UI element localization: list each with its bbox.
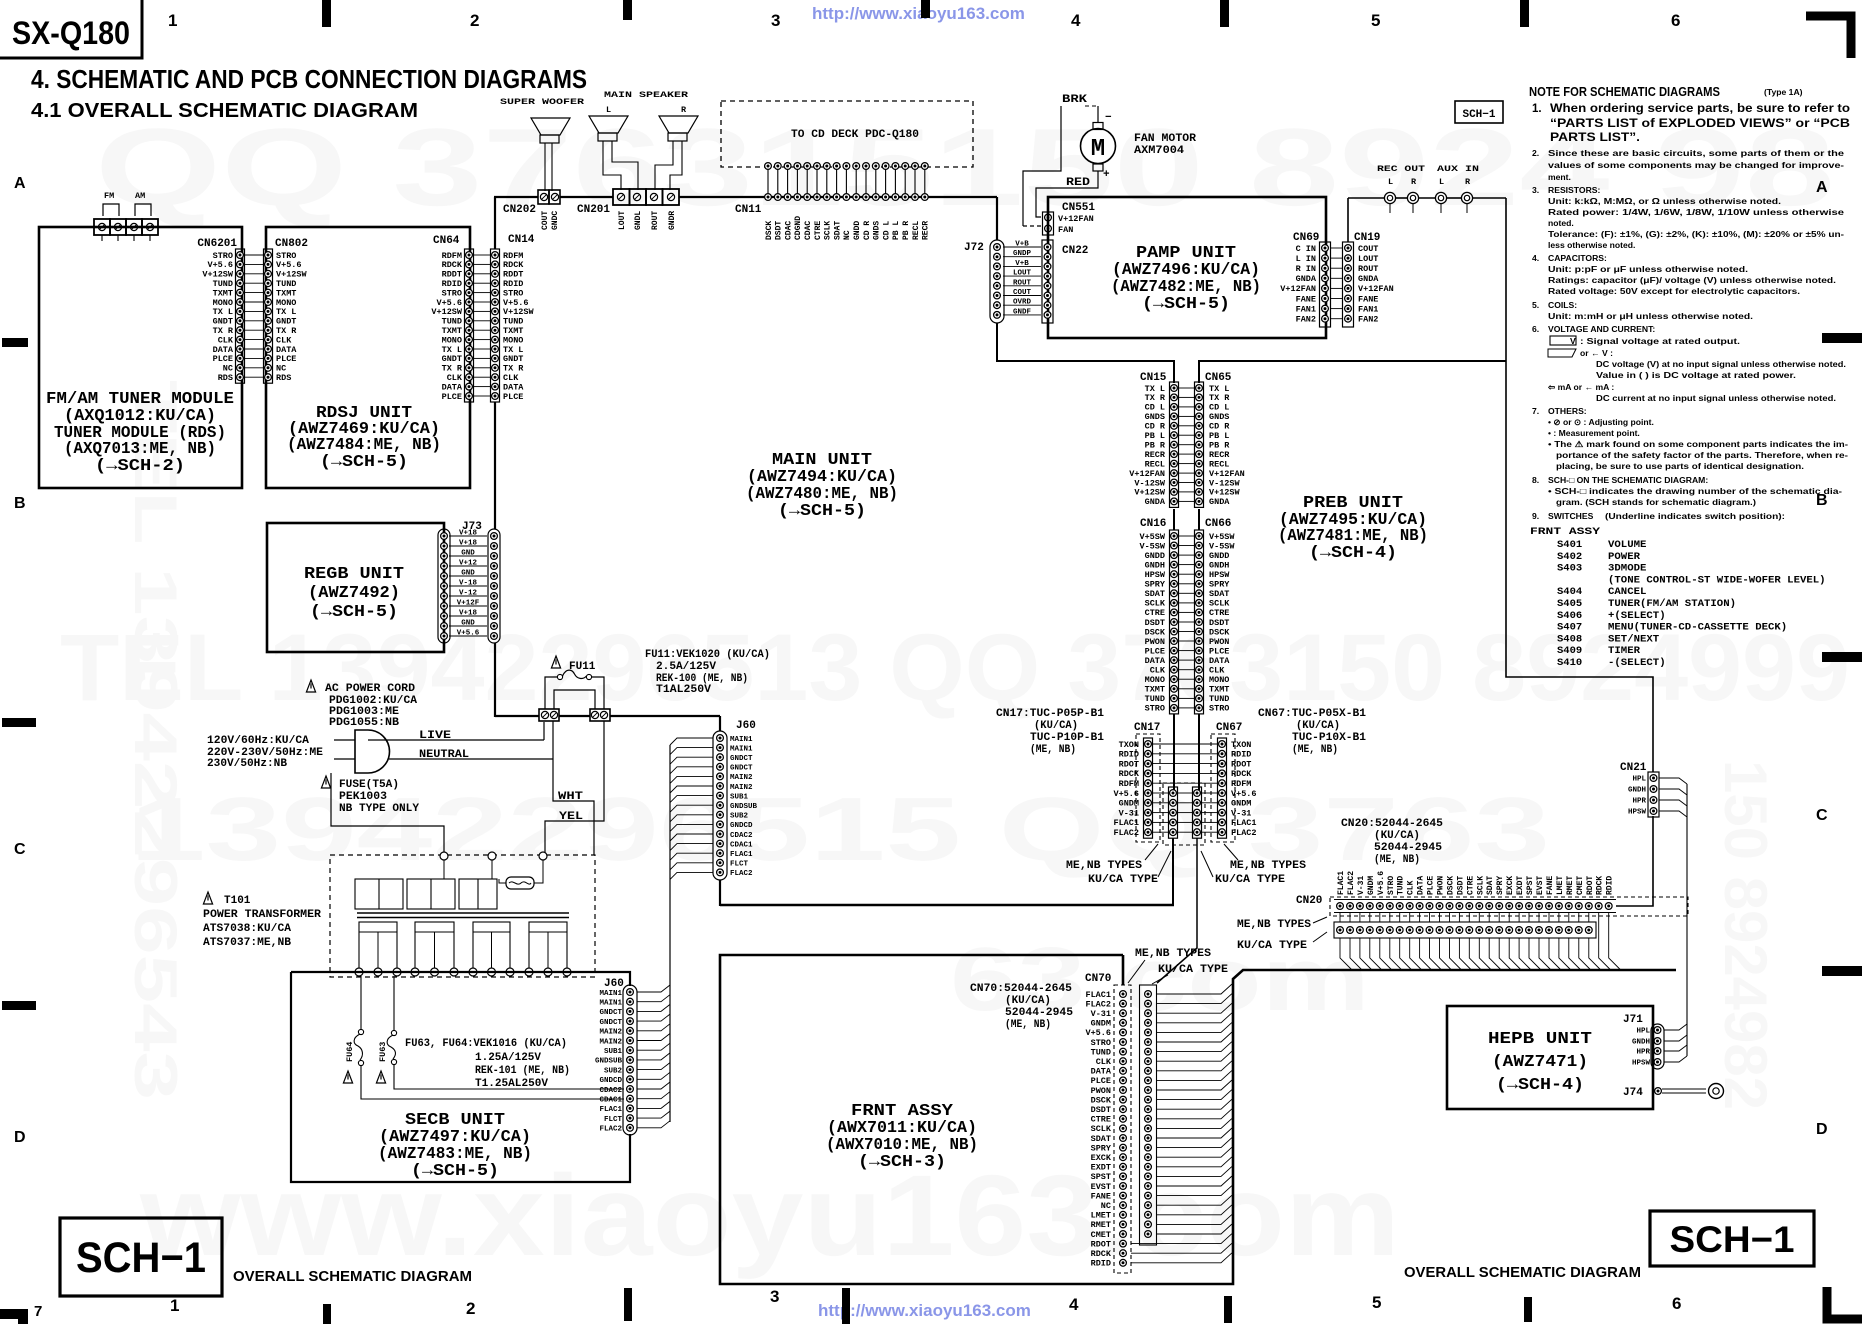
svg-text:PWON: PWON	[1145, 637, 1165, 647]
svg-text:V-18: V-18	[459, 580, 478, 588]
svg-text:1.: 1.	[1532, 103, 1542, 115]
svg-text:RDOT: RDOT	[1586, 876, 1595, 895]
svg-text:(ME, NB): (ME, NB)	[1005, 1019, 1051, 1031]
svg-text:TUC-P10X-B1: TUC-P10X-B1	[1292, 732, 1366, 744]
svg-text:DATA: DATA	[1417, 876, 1426, 895]
svg-text:“PARTS LIST of EXPLODED VIEWS”: “PARTS LIST of EXPLODED VIEWS” or “PCB	[1550, 118, 1850, 130]
svg-text:GNDA: GNDA	[1145, 497, 1166, 507]
svg-text:AUX IN: AUX IN	[1437, 164, 1479, 174]
svg-text:SUB2: SUB2	[730, 813, 749, 821]
wire J72-CN22 link	[1003, 246, 1041, 248]
svg-text:values of some components may: values of some components may be changed…	[1548, 160, 1844, 170]
right edge fold marks	[1822, 333, 1862, 343]
wire J60 harness upper	[670, 738, 713, 745]
svg-text:J74: J74	[1623, 1087, 1643, 1099]
wire J72-CN22 link	[1003, 304, 1041, 306]
svg-text:MAIN SPEAKER: MAIN SPEAKER	[604, 90, 689, 100]
svg-text:D: D	[14, 1129, 26, 1146]
svg-text:noted.: noted.	[1548, 218, 1574, 228]
svg-text:(→SCH-5): (→SCH-5)	[320, 452, 408, 471]
svg-text:GNDM: GNDM	[1231, 799, 1251, 809]
svg-text:V+12F: V+12F	[457, 600, 480, 608]
wire CN69-CN19 link	[1331, 247, 1342, 249]
svg-text:PLCE: PLCE	[1209, 646, 1229, 656]
fuse FU63	[393, 976, 395, 1030]
svg-text:1.25A/125V: 1.25A/125V	[475, 1052, 541, 1064]
svg-text:(KU/CA): (KU/CA)	[1296, 720, 1340, 732]
wire main speaker L leads	[603, 141, 621, 190]
svg-text:DATA: DATA	[1209, 656, 1230, 666]
svg-text:1: 1	[168, 11, 177, 30]
wire J72-CN22 link	[1003, 256, 1041, 258]
thermal fuse	[506, 877, 534, 889]
bottom left corner mark	[0, 1314, 23, 1324]
svg-text:FAN MOTOR: FAN MOTOR	[1134, 133, 1196, 145]
svg-text:FU11:VEK1020 (KU/CA): FU11:VEK1020 (KU/CA)	[645, 649, 770, 661]
svg-text:T101: T101	[224, 895, 251, 907]
svg-text:AXM7004: AXM7004	[1134, 145, 1184, 157]
svg-text:MONO: MONO	[1145, 675, 1165, 685]
svg-text:7: 7	[34, 1303, 42, 1320]
svg-text:GNDH: GNDH	[1145, 560, 1165, 570]
transformer core	[357, 912, 569, 914]
wire CN11 pin link	[875, 169, 877, 194]
wire CN11 pin link	[826, 169, 828, 194]
svg-text:230V/50Hz:NB: 230V/50Hz:NB	[207, 758, 287, 770]
svg-text:RECR: RECR	[1209, 450, 1230, 460]
svg-text:Tolerance: (F): ±1%, (G): ±2%,: Tolerance: (F): ±1%, (G): ±2%, (K): ±10%…	[1548, 229, 1844, 239]
SCH-1 small box top right	[1455, 101, 1503, 123]
svg-text:J60: J60	[736, 720, 756, 732]
svg-text:CN20: CN20	[1296, 895, 1322, 907]
svg-text:SET/NEXT: SET/NEXT	[1608, 633, 1659, 645]
svg-text:C: C	[14, 841, 26, 858]
svg-text:RDCK: RDCK	[1596, 876, 1605, 895]
svg-text:-(SELECT): -(SELECT)	[1608, 657, 1666, 669]
svg-text:GNDA: GNDA	[1358, 274, 1379, 284]
wire J73 link	[449, 555, 487, 557]
svg-text:RECR: RECR	[1145, 450, 1166, 460]
svg-text:CDAC2: CDAC2	[599, 1087, 622, 1095]
svg-text:LOUT: LOUT	[1358, 254, 1378, 264]
wire harness bundle	[669, 745, 671, 1122]
svg-text:• The ⚠ mark found on some com: • The ⚠ mark found on some component par…	[1548, 439, 1848, 449]
svg-text:PB L: PB L	[1145, 431, 1165, 441]
svg-text:RDS: RDS	[276, 373, 291, 383]
svg-text:GNDD: GNDD	[853, 221, 862, 240]
svg-text:RECL: RECL	[912, 221, 921, 240]
wire main speaker R leads	[655, 141, 673, 190]
wire CN11 pin link	[777, 169, 779, 194]
svg-text:GNDD: GNDD	[1209, 551, 1229, 561]
svg-text:ROUT: ROUT	[1358, 264, 1378, 274]
svg-text:ME,NB TYPES: ME,NB TYPES	[1237, 919, 1311, 931]
svg-text:Unit: p:pF or μF unless otherw: Unit: p:pF or μF unless otherwise noted.	[1548, 264, 1748, 274]
wire main AC bus	[495, 715, 539, 717]
svg-text:(→SCH-2): (→SCH-2)	[95, 456, 185, 475]
svg-text:(→SCH-5): (→SCH-5)	[411, 1161, 499, 1180]
AC plug	[334, 740, 355, 759]
svg-text:REK-101 (ME, NB): REK-101 (ME, NB)	[475, 1065, 570, 1077]
svg-text:RDOT: RDOT	[1119, 759, 1139, 769]
svg-text:CANCEL: CANCEL	[1608, 586, 1646, 598]
svg-text:RDCK: RDCK	[1231, 769, 1252, 779]
svg-text:4.: 4.	[1532, 253, 1539, 263]
svg-text:GND: GND	[461, 550, 475, 558]
svg-text:CN11: CN11	[735, 204, 762, 216]
svg-text:COUT: COUT	[1013, 289, 1032, 297]
svg-text:TXMT: TXMT	[1209, 685, 1229, 695]
wire antenna bus	[39, 226, 94, 228]
svg-text:CN802: CN802	[275, 238, 308, 250]
svg-text:MAIN1: MAIN1	[599, 1000, 622, 1008]
svg-text:V+12: V+12	[459, 560, 478, 568]
svg-text:CN15: CN15	[1140, 372, 1167, 384]
svg-text:NEUTRAL: NEUTRAL	[419, 749, 469, 761]
transformer secondary windings	[359, 922, 397, 972]
svg-text:SCLK: SCLK	[1091, 1124, 1112, 1134]
svg-text:TX R: TX R	[1209, 393, 1230, 403]
rca jack	[1384, 192, 1395, 203]
svg-text:: Signal voltage at rated outp: : Signal voltage at rated output.	[1580, 336, 1740, 346]
svg-text:CDAC2: CDAC2	[730, 832, 753, 840]
svg-text:V+5.6: V+5.6	[1085, 1028, 1111, 1038]
terminal block AC left	[539, 709, 559, 721]
svg-text:GND: GND	[461, 570, 475, 578]
svg-text:DSCK: DSCK	[1091, 1095, 1112, 1105]
wire transformer neutral feed	[331, 773, 444, 852]
svg-text:(KU/CA): (KU/CA)	[1374, 830, 1420, 842]
svg-text:Value in ( ) is DC voltage: Value in ( ) is DC voltage at rated powe…	[1596, 370, 1796, 380]
svg-text:portance of the safety factor: portance of the safety factor of the par…	[1556, 450, 1848, 460]
svg-text:RDID: RDID	[1606, 876, 1615, 895]
wire bus to preb connectors	[720, 904, 1174, 907]
svg-text:FU63, FU64:VEK1016 (KU/CA): FU63, FU64:VEK1016 (KU/CA)	[405, 1038, 567, 1050]
svg-text:CN6201: CN6201	[197, 238, 237, 250]
svg-text:V+5SW: V+5SW	[1209, 532, 1235, 542]
wire CN69-CN19 link	[1331, 298, 1342, 300]
svg-text:DSDT: DSDT	[1091, 1105, 1111, 1115]
svg-text:COUT: COUT	[541, 211, 550, 230]
wire CN20 harness to cable	[1340, 938, 1352, 970]
svg-text:FLAC2: FLAC2	[599, 1126, 622, 1134]
svg-text:GNDCT: GNDCT	[730, 755, 753, 763]
svg-text:T1.25AL250V: T1.25AL250V	[475, 1078, 548, 1090]
svg-text:FLAC2: FLAC2	[730, 870, 753, 878]
svg-text:KU/CA TYPE: KU/CA TYPE	[1158, 964, 1228, 976]
svg-text:CN202: CN202	[503, 204, 536, 216]
svg-text:V-5SW: V-5SW	[1139, 541, 1165, 551]
svg-text:SUB2: SUB2	[604, 1067, 623, 1075]
wire headphone cable	[1686, 784, 1688, 1056]
svg-text:ME,NB TYPES: ME,NB TYPES	[1066, 860, 1142, 872]
svg-text:RECR: RECR	[922, 221, 931, 240]
wire CN67 inner to CN70	[1157, 838, 1197, 983]
wire J73 link	[449, 625, 487, 627]
rca jack	[1435, 192, 1446, 203]
svg-text:(KU/CA): (KU/CA)	[1005, 995, 1051, 1007]
svg-text:HPSW: HPSW	[1209, 570, 1230, 580]
wire CN65 to preb/aux line	[1199, 361, 1506, 383]
wire J72-CN22 link	[1003, 295, 1041, 297]
svg-text:TXMT: TXMT	[1145, 685, 1165, 695]
wire MAIN UNIT left edge	[494, 197, 496, 249]
svg-text:GNDA: GNDA	[1296, 274, 1317, 284]
svg-text:FRNT ASSY: FRNT ASSY	[1530, 526, 1601, 538]
svg-text:V+B: V+B	[1015, 241, 1029, 249]
svg-text:CDAC: CDAC	[784, 221, 793, 240]
svg-text:PDG1055:NB: PDG1055:NB	[329, 717, 399, 729]
svg-text:120V/60Hz:KU/CA: 120V/60Hz:KU/CA	[207, 735, 309, 747]
svg-text:DC voltage (V) at no input sig: DC voltage (V) at no input signal unless…	[1596, 359, 1846, 369]
svg-text:GNDM: GNDM	[1367, 876, 1376, 895]
svg-text:(TONE CONTROL-ST WIDE-WOFER LE: (TONE CONTROL-ST WIDE-WOFER LEVEL)	[1608, 574, 1826, 586]
svg-text:V+12FAN: V+12FAN	[1058, 214, 1094, 224]
svg-text:GNDCT: GNDCT	[599, 1009, 622, 1017]
svg-text:L: L	[1388, 177, 1393, 187]
svg-text:SCH−1: SCH−1	[1670, 1219, 1795, 1260]
svg-text:STRO: STRO	[1209, 704, 1229, 714]
fuse FU11	[551, 656, 560, 668]
wire CN69-CN19 link	[1331, 308, 1342, 310]
svg-text:FLAC1: FLAC1	[730, 851, 753, 859]
svg-text:GNDD: GNDD	[1145, 551, 1165, 561]
svg-text:PLCE: PLCE	[1427, 876, 1436, 895]
svg-text:5: 5	[1371, 11, 1380, 30]
svg-text:CN65: CN65	[1205, 372, 1232, 384]
svg-text:V+18: V+18	[459, 530, 478, 538]
svg-text:(Underline indicates switch po: (Underline indicates switch position):	[1605, 511, 1785, 521]
svg-text:V-31: V-31	[1091, 1009, 1111, 1019]
box SECB UNIT	[291, 972, 630, 1182]
svg-text:www.xiaoyu163.com: www.xiaoyu163.com	[139, 1152, 1400, 1280]
svg-text:⇦ mA or ← mA :: ⇦ mA or ← mA :	[1547, 382, 1614, 392]
svg-text:GNDSUB: GNDSUB	[730, 803, 758, 811]
svg-text:RDCK: RDCK	[1119, 769, 1140, 779]
svg-text:ME,NB TYPES: ME,NB TYPES	[1135, 948, 1211, 960]
svg-text:B: B	[14, 495, 26, 512]
wire CN6201-CN802 links	[245, 254, 263, 256]
svg-text:V+5.6: V+5.6	[1113, 789, 1139, 799]
svg-text:BRK: BRK	[1062, 94, 1087, 106]
svg-text:RDID: RDID	[1231, 750, 1251, 760]
svg-text:S401: S401	[1557, 539, 1582, 551]
svg-text:6.: 6.	[1532, 324, 1539, 334]
svg-text:LOUT: LOUT	[618, 211, 627, 230]
wire FU64 to CDAC1	[361, 1066, 624, 1099]
wire CN20 to CN21 riser	[1616, 816, 1653, 906]
svg-text:GNDA: GNDA	[1209, 497, 1230, 507]
top right corner mark	[1806, 16, 1851, 58]
svg-text:MAIN1: MAIN1	[599, 990, 622, 998]
svg-text:PLCE: PLCE	[1145, 646, 1165, 656]
svg-text:DSCK: DSCK	[765, 221, 774, 240]
svg-text:ROUT: ROUT	[1013, 279, 1032, 287]
wire J71 to headphone cable	[1664, 1024, 1687, 1030]
svg-text:(→SCH-4): (→SCH-4)	[1309, 543, 1397, 562]
wire aux down right side	[1506, 198, 1653, 772]
svg-text:RECL: RECL	[1209, 459, 1229, 469]
wire CN69-CN19 link	[1331, 277, 1342, 279]
svg-text:• : Measurement point: • : Measurement point.	[1548, 428, 1640, 438]
fuse FU64	[360, 976, 362, 1029]
wire NEUTRAL	[389, 758, 553, 760]
wire CN11 pin link	[787, 169, 789, 194]
svg-text:(→SCH-5): (→SCH-5)	[778, 501, 866, 520]
svg-text:GNDCT: GNDCT	[730, 765, 753, 773]
svg-text:TUND: TUND	[1145, 694, 1165, 704]
svg-text:V+12FAN: V+12FAN	[1280, 284, 1316, 294]
svg-text:FAN2: FAN2	[1296, 315, 1316, 325]
svg-text:TUND: TUND	[1209, 694, 1229, 704]
svg-text:GNDH: GNDH	[1209, 560, 1229, 570]
wire fan motor positive RED	[1036, 171, 1098, 217]
wire CN17-CN67 links	[1153, 743, 1217, 745]
svg-text:FLAC1: FLAC1	[599, 1106, 622, 1114]
wire CN70 harness	[1157, 984, 1232, 994]
svg-text:GNDF: GNDF	[1013, 308, 1032, 316]
svg-text:• ⊘ or ⊙ : Adjusting point.: • ⊘ or ⊙ : Adjusting point.	[1548, 417, 1654, 427]
svg-text:CN19: CN19	[1354, 232, 1380, 244]
svg-text:LOUT: LOUT	[1013, 270, 1032, 278]
svg-text:V+5.6: V+5.6	[1231, 789, 1257, 799]
svg-text:PWON: PWON	[1209, 637, 1229, 647]
svg-text:A: A	[14, 175, 26, 192]
svg-text:Unit: m:mH or μH unless otherw: Unit: m:mH or μH unless otherwise noted.	[1548, 311, 1753, 321]
box FM/AM TUNER MODULE	[39, 227, 242, 488]
svg-text:FLCT: FLCT	[730, 861, 749, 869]
svg-text:150 8924982: 150 8924982	[1712, 760, 1779, 1110]
svg-text:D: D	[1816, 1121, 1828, 1138]
svg-text:J60: J60	[604, 978, 624, 990]
wire J73 link	[449, 585, 487, 587]
transformer primary windings	[355, 879, 403, 909]
svg-text:NB TYPE ONLY: NB TYPE ONLY	[339, 803, 419, 815]
svg-text:GNDL: GNDL	[634, 211, 643, 230]
wire J72 to CN15	[997, 323, 1174, 383]
svg-text:V+12SW: V+12SW	[1134, 488, 1166, 498]
svg-text:CN67: CN67	[1216, 722, 1242, 734]
svg-text:HPSW: HPSW	[1628, 809, 1647, 817]
svg-text:FUSE(T5A): FUSE(T5A)	[339, 779, 399, 791]
svg-text:STRO: STRO	[1387, 876, 1396, 895]
svg-text:DSDT: DSDT	[1456, 876, 1465, 895]
wire MAIN UNIT right-of-J60 edge	[719, 716, 721, 731]
svg-text:PWON: PWON	[1091, 1086, 1111, 1096]
box PAMP UNIT	[1048, 197, 1326, 338]
rca jack	[1461, 192, 1472, 203]
svg-text:ment.: ment.	[1548, 172, 1571, 182]
wire CN19 to jacks	[1347, 198, 1349, 242]
svg-text:5: 5	[1372, 1293, 1381, 1312]
svg-text:CN64: CN64	[433, 235, 460, 247]
wire CN69-CN19 link	[1331, 318, 1342, 320]
terminal block AC right	[590, 709, 610, 721]
svg-text:EVST: EVST	[1536, 876, 1545, 895]
svg-text:SPRY: SPRY	[1496, 876, 1505, 895]
svg-text:less otherwise noted.: less otherwise noted.	[1548, 240, 1635, 250]
connector CN70 ku-ca column	[1140, 985, 1157, 1245]
svg-text:Rated power: 1/4W, 1/6W, 1/8W,: Rated power: 1/4W, 1/6W, 1/8W, 1/10W unl…	[1548, 207, 1844, 217]
svg-text:RDCK: RDCK	[1091, 1249, 1112, 1259]
svg-text:RMET: RMET	[1091, 1220, 1111, 1230]
svg-text:CD R: CD R	[863, 221, 872, 240]
wire J73 link	[449, 595, 487, 597]
svg-text:OTHERS:: OTHERS:	[1548, 406, 1587, 416]
svg-text:CN21: CN21	[1620, 762, 1647, 774]
transformer T101 primary dashed box	[330, 855, 595, 977]
svg-text:CN70: CN70	[1085, 973, 1111, 985]
svg-text:Unit: k:kΩ, M:MΩ, or Ω unless: Unit: k:kΩ, M:MΩ, or Ω unless otherwise …	[1548, 196, 1781, 206]
wire CN11 pin link	[845, 169, 847, 194]
svg-text:LMET: LMET	[1091, 1211, 1111, 1221]
svg-text:CTRE: CTRE	[1466, 876, 1475, 895]
wire CN69-CN19 link	[1331, 287, 1342, 289]
svg-text:HPR: HPR	[1632, 798, 1646, 806]
rca jack	[1407, 192, 1418, 203]
svg-text:9.: 9.	[1532, 511, 1539, 521]
svg-text:CTRE: CTRE	[814, 221, 823, 240]
svg-text:(AWZ7471): (AWZ7471)	[1492, 1052, 1588, 1071]
svg-text:3: 3	[771, 11, 780, 30]
svg-text:SDAT: SDAT	[1209, 589, 1229, 599]
svg-text:TUNER(FM/AM STATION): TUNER(FM/AM STATION)	[1608, 598, 1736, 610]
svg-text:(Type 1A): (Type 1A)	[1764, 87, 1803, 97]
svg-text:ME,NB TYPES: ME,NB TYPES	[1230, 860, 1306, 872]
note AC POWER CORD	[306, 680, 315, 692]
svg-text:S407: S407	[1557, 622, 1582, 634]
svg-text:(→SCH-3): (→SCH-3)	[858, 1152, 946, 1171]
svg-text:CLK: CLK	[1150, 666, 1166, 676]
svg-text:ATS7037:ME,NB: ATS7037:ME,NB	[203, 937, 291, 949]
svg-text:3.: 3.	[1532, 185, 1539, 195]
svg-text:SCH−1: SCH−1	[1462, 109, 1495, 121]
box RDSJ UNIT	[266, 227, 470, 488]
svg-text:CN67:TUC-P05X-B1: CN67:TUC-P05X-B1	[1258, 708, 1366, 720]
wire J72-CN22 link	[1003, 314, 1041, 316]
wire CN21 to headphone cable	[1659, 778, 1687, 784]
svg-text:GNDS: GNDS	[873, 221, 882, 240]
svg-text:ATS7038:KU/CA: ATS7038:KU/CA	[203, 923, 291, 935]
wire CN11 pin link	[836, 169, 838, 194]
note T101 POWER TRANSFORMER	[203, 892, 212, 904]
wire CN11 pin link	[894, 169, 896, 194]
svg-text:• SCH-□ indicates the drawing: • SCH-□ indicates the drawing number of …	[1548, 486, 1842, 496]
svg-text:FLCT: FLCT	[604, 1116, 623, 1124]
wire super woofer leads	[544, 143, 546, 191]
svg-text:CN70:52044-2645: CN70:52044-2645	[970, 983, 1072, 995]
svg-text:HPSW: HPSW	[1145, 570, 1166, 580]
wire CN11 pin link	[914, 169, 916, 194]
svg-text:GNDC: GNDC	[551, 211, 560, 230]
svg-text:V-5SW: V-5SW	[1209, 541, 1235, 551]
svg-text:RDFM: RDFM	[1231, 779, 1251, 789]
svg-text:GNDM: GNDM	[1119, 799, 1139, 809]
svg-text:HEPB UNIT: HEPB UNIT	[1488, 1029, 1592, 1048]
svg-text:3: 3	[770, 1287, 779, 1306]
wire CN17 inner to bus	[1172, 838, 1174, 905]
svg-text:CMET: CMET	[1091, 1230, 1111, 1240]
svg-text:(→SCH-5): (→SCH-5)	[310, 602, 398, 621]
svg-text:MONO: MONO	[1209, 675, 1229, 685]
svg-text:FANE: FANE	[1296, 294, 1316, 304]
svg-text:KU/CA TYPE: KU/CA TYPE	[1088, 874, 1158, 886]
wire J72-CN22 link	[1003, 275, 1041, 277]
svg-text:YEL: YEL	[559, 811, 583, 823]
svg-text:CLK: CLK	[1096, 1057, 1112, 1067]
svg-text:KU/CA TYPE: KU/CA TYPE	[1237, 940, 1307, 952]
svg-text:S406: S406	[1557, 610, 1582, 622]
